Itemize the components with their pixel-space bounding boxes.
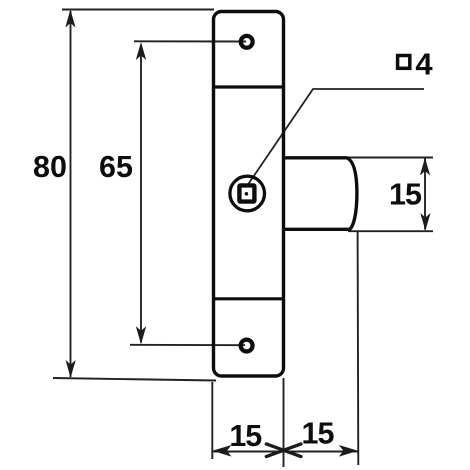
svg-text:15: 15 [229, 419, 262, 453]
svg-text:4: 4 [415, 47, 433, 82]
svg-text:15: 15 [302, 417, 335, 451]
svg-text:15: 15 [389, 178, 422, 212]
svg-text:65: 65 [99, 150, 133, 184]
svg-text:80: 80 [33, 150, 67, 184]
